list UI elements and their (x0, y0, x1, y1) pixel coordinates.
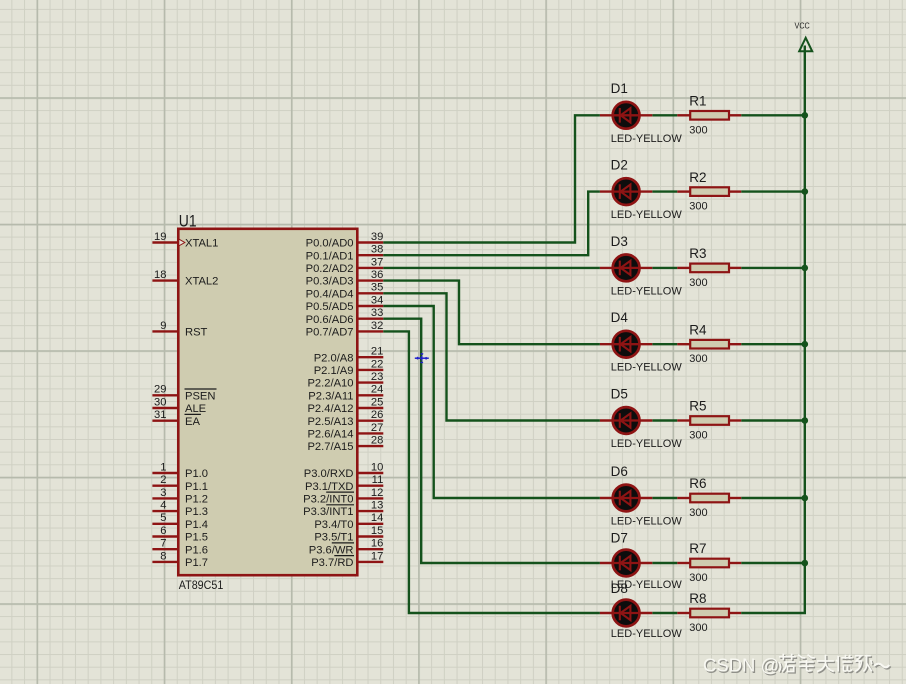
svg-text:23: 23 (371, 371, 383, 383)
pin 16 P3.6/WR (309, 538, 384, 557)
pin 35 P0.4/AD4 (306, 282, 384, 301)
svg-text:D4: D4 (611, 310, 629, 325)
junction node R6/VCC bus (802, 495, 809, 502)
svg-text:P3.6/WR: P3.6/WR (309, 544, 354, 556)
svg-text:2: 2 (160, 474, 166, 486)
value label LED-YELLOW (D6) (611, 516, 683, 528)
reference label D4 (611, 310, 629, 325)
svg-text:PSEN: PSEN (185, 390, 215, 402)
wire VCC bus vertical + corner to R8 (741, 46, 805, 614)
svg-text:8: 8 (160, 550, 166, 562)
svg-text:P3.4/T0: P3.4/T0 (314, 519, 353, 531)
svg-text:18: 18 (154, 269, 166, 281)
value label LED-YELLOW (D3) (611, 285, 683, 297)
svg-text:P2.6/A14: P2.6/A14 (307, 429, 353, 441)
svg-text:14: 14 (371, 512, 383, 524)
pin 5 P1.4 (152, 512, 208, 531)
svg-text:P3.7/RD: P3.7/RD (311, 557, 353, 569)
pin 11 P3.1/TXD (305, 474, 383, 493)
svg-text:P0.0/AD0: P0.0/AD0 (306, 238, 354, 250)
svg-text:R7: R7 (689, 541, 706, 556)
reference label D1 (611, 81, 628, 96)
svg-text:P3.1/TXD: P3.1/TXD (305, 481, 354, 493)
svg-text:P1.3: P1.3 (185, 506, 208, 518)
svg-text:17: 17 (371, 550, 383, 562)
wire D6 to R6 (652, 497, 677, 499)
value label 300 (R3) (689, 277, 707, 289)
pin 29 PSEN (152, 384, 216, 403)
junction node R5/VCC bus (802, 417, 809, 424)
wire R3 to VCC bus (741, 267, 805, 269)
wire P0.6 to LED D7 (383, 319, 600, 563)
reference label R2 (689, 170, 706, 185)
LED D3 (600, 255, 652, 282)
svg-text:R6: R6 (689, 476, 706, 491)
svg-text:P2.3/A11: P2.3/A11 (308, 390, 353, 402)
value label 300 (R1) (689, 124, 707, 136)
svg-text:P1.6: P1.6 (185, 544, 208, 556)
svg-text:27: 27 (371, 422, 383, 434)
junction node R2/VCC bus (802, 188, 809, 195)
wire R5 to VCC bus (741, 419, 805, 421)
svg-text:LED-YELLOW: LED-YELLOW (611, 133, 683, 145)
svg-text:38: 38 (371, 244, 383, 256)
svg-text:11: 11 (372, 474, 384, 486)
svg-text:R4: R4 (689, 322, 707, 337)
svg-text:P2.5/A13: P2.5/A13 (307, 416, 353, 428)
svg-text:P0.5/AD5: P0.5/AD5 (306, 301, 354, 313)
svg-text:P3.0/RXD: P3.0/RXD (304, 468, 354, 480)
svg-text:31: 31 (154, 409, 166, 421)
pin 22 P2.1/A9 (314, 358, 384, 377)
svg-text:P0.7/AD7: P0.7/AD7 (306, 327, 354, 339)
svg-text:4: 4 (160, 500, 166, 512)
pin 33 P0.6/AD6 (306, 307, 384, 326)
resistor R2 (677, 187, 741, 196)
reference label R7 (689, 541, 706, 556)
pin 15 P3.5/T1 (314, 525, 383, 544)
reference label R5 (689, 399, 706, 414)
pin 19 XTAL1 (152, 231, 218, 250)
svg-text:VCC: VCC (795, 22, 810, 31)
svg-text:EA: EA (185, 416, 200, 428)
resistor R7 (677, 559, 741, 568)
junction node R1/VCC bus (802, 112, 809, 119)
svg-text:300: 300 (689, 201, 707, 213)
svg-text:LED-YELLOW: LED-YELLOW (611, 362, 683, 374)
svg-text:19: 19 (154, 231, 166, 243)
reference label R8 (689, 591, 706, 606)
svg-text:29: 29 (154, 384, 166, 396)
IC U1 AT89C51 body (178, 229, 357, 575)
pin 17 P3.7/RD (311, 550, 383, 569)
svg-text:D1: D1 (611, 81, 628, 96)
value label LED-YELLOW (D1) (611, 133, 683, 145)
reference label R6 (689, 476, 706, 491)
wire D8 to R8 (652, 612, 677, 614)
value label LED-YELLOW (D5) (611, 438, 683, 450)
LED D6 (600, 485, 652, 512)
svg-text:3: 3 (160, 487, 166, 499)
svg-text:R2: R2 (689, 170, 706, 185)
svg-text:P2.4/A12: P2.4/A12 (307, 403, 353, 415)
svg-text:12: 12 (371, 487, 383, 499)
pin 23 P2.2/A10 (307, 371, 383, 390)
svg-text:9: 9 (160, 320, 166, 332)
junction node R4/VCC bus (802, 341, 809, 348)
svg-text:P2.0/A8: P2.0/A8 (314, 352, 354, 364)
svg-text:15: 15 (371, 525, 383, 537)
svg-text:26: 26 (371, 409, 383, 421)
resistor R4 (677, 340, 741, 349)
svg-text:34: 34 (371, 294, 383, 306)
reference label D7 (611, 531, 628, 546)
wire P0.5 to LED D6 (383, 306, 600, 498)
reference label R1 (689, 94, 706, 109)
pin 31 EA (152, 409, 201, 428)
svg-text:AT89C51: AT89C51 (179, 578, 224, 592)
svg-text:1: 1 (160, 461, 166, 473)
pin 30 ALE (152, 396, 206, 415)
junction node R7/VCC bus (802, 560, 809, 567)
wire D7 to R7 (652, 562, 677, 564)
wire D2 to R2 (652, 190, 677, 192)
svg-text:300: 300 (689, 622, 707, 634)
value label LED-YELLOW (D4) (611, 362, 683, 374)
wire R6 to VCC bus (741, 497, 805, 499)
svg-text:10: 10 (371, 461, 383, 473)
svg-text:LED-YELLOW: LED-YELLOW (611, 285, 683, 297)
pin 24 P2.3/A11 (308, 384, 383, 403)
resistor R6 (677, 494, 741, 503)
wire P0.1 to LED D2 (383, 192, 600, 256)
svg-text:P1.4: P1.4 (185, 519, 208, 531)
pin 14 P3.4/T0 (314, 512, 383, 531)
svg-text:RST: RST (185, 327, 208, 339)
svg-text:P0.4/AD4: P0.4/AD4 (306, 288, 354, 300)
svg-text:D5: D5 (611, 386, 628, 401)
svg-text:22: 22 (371, 358, 383, 370)
svg-text:ALE: ALE (185, 403, 206, 415)
svg-text:25: 25 (371, 396, 383, 408)
pin 32 P0.7/AD7 (306, 320, 384, 339)
svg-text:37: 37 (371, 256, 383, 268)
svg-text:P3.2/INT0: P3.2/INT0 (303, 494, 353, 506)
svg-text:LED-YELLOW: LED-YELLOW (611, 516, 683, 528)
wire R7 to VCC bus (741, 562, 805, 564)
value label AT89C51 (179, 578, 224, 592)
wire R2 to VCC bus (741, 190, 805, 192)
resistor R8 (677, 609, 741, 618)
svg-text:LED-YELLOW: LED-YELLOW (611, 628, 683, 640)
pin 1 P1.0 (152, 461, 208, 480)
svg-text:U1: U1 (179, 212, 197, 230)
svg-text:36: 36 (371, 269, 383, 281)
LED D5 (600, 407, 652, 434)
svg-text:300: 300 (689, 572, 707, 584)
pin 6 P1.5 (152, 525, 208, 544)
svg-text:R8: R8 (689, 591, 706, 606)
watermark CSDN @... (703, 654, 891, 677)
resistor R1 (677, 111, 741, 120)
value label 300 (R5) (689, 430, 707, 442)
svg-text:CSDN @: CSDN @ (703, 655, 779, 676)
svg-text:300: 300 (689, 353, 707, 365)
svg-text:LED-YELLOW: LED-YELLOW (611, 209, 683, 221)
svg-text:P2.2/A10: P2.2/A10 (307, 378, 353, 390)
svg-text:P2.1/A9: P2.1/A9 (314, 365, 354, 377)
wire P0.7 to LED D8 (383, 331, 600, 613)
pin 13 P3.3/INT1 (303, 500, 383, 519)
svg-text:7: 7 (160, 538, 166, 550)
pin 27 P2.6/A14 (307, 422, 383, 441)
svg-text:6: 6 (160, 525, 166, 537)
svg-text:P3.5/T1: P3.5/T1 (314, 532, 353, 544)
svg-text:P0.6/AD6: P0.6/AD6 (306, 314, 354, 326)
svg-text:P1.2: P1.2 (185, 494, 208, 506)
svg-text:30: 30 (154, 396, 166, 408)
svg-text:35: 35 (371, 282, 383, 294)
reference label R4 (689, 322, 707, 337)
value label LED-YELLOW (D2) (611, 209, 683, 221)
value label 300 (R8) (689, 622, 707, 634)
svg-text:LED-YELLOW: LED-YELLOW (611, 438, 683, 450)
svg-text:13: 13 (371, 500, 383, 512)
value label 300 (R4) (689, 353, 707, 365)
pin 34 P0.5/AD5 (306, 294, 384, 313)
LED D2 (600, 178, 652, 205)
reference label R3 (689, 246, 706, 261)
svg-text:33: 33 (371, 307, 383, 319)
wire D4 to R4 (652, 343, 677, 345)
svg-text:P1.0: P1.0 (185, 468, 208, 480)
pin 12 P3.2/INT0 (303, 487, 383, 506)
resistor R3 (677, 264, 741, 273)
value label LED-YELLOW (D7) (611, 579, 683, 591)
svg-text:24: 24 (371, 384, 383, 396)
wire D3 to R3 (652, 267, 677, 269)
svg-text:21: 21 (371, 346, 383, 358)
svg-text:28: 28 (371, 435, 383, 447)
svg-text:R3: R3 (689, 246, 706, 261)
resistor R5 (677, 416, 741, 425)
reference label D2 (611, 158, 628, 173)
pin 21 P2.0/A8 (314, 346, 384, 365)
svg-text:300: 300 (689, 124, 707, 136)
value label 300 (R2) (689, 201, 707, 213)
value label 300 (R7) (689, 572, 707, 584)
svg-text:P1.7: P1.7 (185, 557, 208, 569)
svg-text:300: 300 (689, 277, 707, 289)
reference label D5 (611, 386, 628, 401)
pin 39 P0.0/AD0 (306, 231, 384, 250)
reference label D8 (611, 581, 628, 596)
pin 9 RST (152, 320, 207, 339)
pin 36 P0.3/AD3 (306, 269, 384, 288)
wire P0.4 to LED D5 (383, 293, 600, 420)
svg-text:5: 5 (160, 512, 166, 524)
svg-text:D2: D2 (611, 158, 628, 173)
svg-text:16: 16 (371, 538, 383, 550)
svg-text:P3.3/INT1: P3.3/INT1 (303, 506, 353, 518)
svg-text:D3: D3 (611, 234, 628, 249)
LED D1 (600, 102, 652, 129)
pin 10 P3.0/RXD (304, 461, 384, 480)
svg-text:P0.1/AD1: P0.1/AD1 (306, 250, 354, 262)
wire P0.0 to LED D1 (383, 115, 600, 242)
pin 28 P2.7/A15 (307, 435, 383, 454)
svg-text:R5: R5 (689, 399, 706, 414)
wire D5 to R5 (652, 419, 677, 421)
wire R1 to VCC bus (741, 114, 805, 116)
svg-text:XTAL2: XTAL2 (185, 276, 218, 288)
pin 26 P2.5/A13 (307, 409, 383, 428)
reference label D3 (611, 234, 628, 249)
pin 37 P0.2/AD2 (306, 256, 384, 275)
LED D8 (600, 600, 652, 627)
wire P0.2 to LED D3 (383, 267, 600, 269)
svg-text:300: 300 (689, 507, 707, 519)
svg-text:P1.5: P1.5 (185, 532, 208, 544)
reference label D6 (611, 464, 628, 479)
svg-text:P0.2/AD2: P0.2/AD2 (306, 263, 354, 275)
svg-text:300: 300 (689, 430, 707, 442)
svg-text:32: 32 (371, 320, 383, 332)
pin 7 P1.6 (152, 538, 208, 557)
node origin marker (blue crosshair) (415, 354, 429, 363)
svg-text:P1.1: P1.1 (185, 481, 208, 493)
pin 8 P1.7 (152, 550, 208, 569)
svg-text:D8: D8 (611, 581, 628, 596)
svg-text:39: 39 (371, 231, 383, 243)
svg-text:D6: D6 (611, 464, 628, 479)
wire P0.3 to LED D4 (383, 281, 600, 345)
svg-text:P0.3/AD3: P0.3/AD3 (306, 276, 354, 288)
LED D4 (600, 331, 652, 358)
power symbol VCC (795, 22, 813, 52)
svg-text:D7: D7 (611, 531, 628, 546)
svg-text:P2.7/A15: P2.7/A15 (307, 441, 353, 453)
pin 4 P1.3 (152, 500, 208, 519)
value label LED-YELLOW (D8) (611, 628, 683, 640)
junction node R3/VCC bus (802, 265, 809, 272)
pin 3 P1.2 (152, 487, 208, 506)
value label 300 (R6) (689, 507, 707, 519)
svg-text:R1: R1 (689, 94, 706, 109)
pin 38 P0.1/AD1 (306, 244, 384, 263)
pin 2 P1.1 (152, 474, 208, 493)
wire R4 to VCC bus (741, 343, 805, 345)
svg-text:XTAL1: XTAL1 (185, 238, 218, 250)
reference label U1 (179, 212, 197, 230)
pin 25 P2.4/A12 (307, 396, 383, 415)
pin 18 XTAL2 (152, 269, 218, 288)
wire D1 to R1 (652, 114, 677, 116)
LED D7 (600, 550, 652, 577)
